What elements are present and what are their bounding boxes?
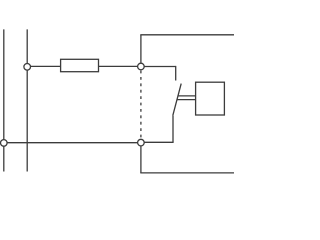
mechanical link dashed line node B to node C [140,71,142,139]
node D terminal circle on rail 1 [1,140,8,147]
wire node D to node C [7,142,138,144]
actuator box B1 [196,82,225,115]
wire node C down to bottom wire [140,146,142,173]
wire switch to node C [144,141,173,143]
node A terminal circle on rail 2 [24,64,31,71]
resistor R1 [61,59,99,71]
switch S1 lever (moving contact) [173,84,181,116]
wire node B to switch fixed contact [144,66,176,68]
wire node B up to top rail [140,35,142,63]
mechanical link to actuator lower line [177,99,196,101]
supply rail 1 (left vertical wire) [3,29,5,171]
mechanical link to actuator upper line [178,95,196,97]
node B junction circle [138,63,145,70]
bottom wire to right edge [140,172,234,174]
node C junction circle [138,139,145,146]
switch S1 fixed contact terminal [175,66,177,81]
top wire to right edge [140,34,234,36]
wire resistor to node B [99,65,138,67]
supply rail 2 (second vertical wire) [26,29,28,171]
wire node A to resistor [31,65,61,67]
switch S1 lower terminal wire [172,116,174,143]
